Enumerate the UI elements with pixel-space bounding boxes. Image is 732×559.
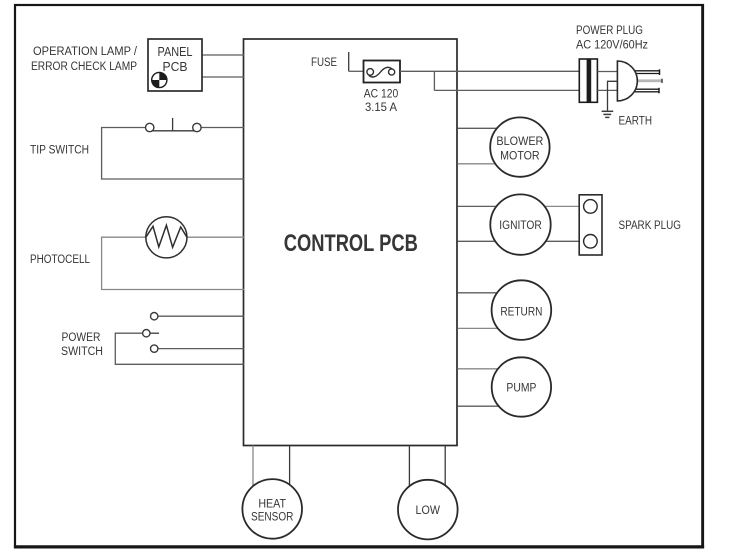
svg-text:FUSE: FUSE: [311, 55, 337, 69]
wire: ignitor lower left: [458, 240, 506, 242]
wire: ignitor to spark plug (lower): [535, 240, 579, 242]
earth ground symbol: [602, 111, 614, 117]
wire: low sensor left lead: [408, 446, 410, 491]
wire: photocell right to control PCB: [184, 236, 244, 238]
svg-text:LOW: LOW: [416, 503, 441, 517]
pump: [492, 357, 551, 416]
blower motor: [490, 117, 549, 176]
label: POWER PLUG AC 120V/60Hz: [576, 23, 648, 52]
wire: heat sensor left lead: [252, 446, 254, 491]
wire: fuse stub from control PCB: [348, 52, 350, 71]
plug prong (middle): [637, 79, 662, 83]
wire: stub to fuse: [349, 70, 364, 72]
return motor: [492, 280, 552, 340]
svg-text:PCB: PCB: [163, 60, 188, 74]
registration mark icon on panel PCB: [152, 72, 167, 87]
svg-text:3.15 A: 3.15 A: [365, 100, 398, 114]
svg-text:PUMP: PUMP: [506, 381, 536, 395]
wire: power switch top contact to control PCB: [158, 315, 244, 317]
svg-text:AC 120V/60Hz: AC 120V/60Hz: [576, 38, 648, 52]
wire: power switch middle branch: [115, 333, 244, 364]
wire: earth tap from plug: [608, 81, 618, 110]
svg-text:CONTROL PCB: CONTROL PCB: [284, 230, 418, 257]
plug prong (bottom): [635, 88, 659, 94]
label: SPARK PLUG: [619, 218, 682, 232]
wire: branch down from line: [433, 71, 435, 90]
svg-text:OPERATION LAMP /: OPERATION LAMP /: [33, 44, 138, 58]
wire: ignitor to spark plug (upper): [535, 205, 579, 207]
plug prong (top): [635, 69, 660, 75]
svg-text:TIP SWITCH: TIP SWITCH: [30, 143, 89, 157]
wire: panel PCB to control PCB (lower): [202, 76, 244, 78]
svg-text:SPARK PLUG: SPARK PLUG: [619, 218, 682, 232]
wire: tip switch right to control PCB: [197, 127, 244, 129]
svg-text:BLOWER: BLOWER: [496, 134, 543, 148]
label: EARTH: [619, 114, 653, 128]
wire: panel PCB to control PCB (upper): [202, 54, 244, 56]
wire: heat sensor right lead: [289, 446, 291, 491]
wire: blower motor lower: [458, 163, 506, 165]
label: FUSE: [311, 55, 337, 69]
wire: pump lower: [458, 405, 506, 407]
panel PCB block: [148, 39, 202, 91]
power plug connector body: [579, 59, 597, 102]
label: PHOTOCELL: [30, 252, 90, 266]
svg-text:SWITCH: SWITCH: [61, 344, 103, 358]
wire: pump upper: [458, 368, 506, 370]
wire: ignitor upper left: [458, 205, 506, 207]
svg-text:IGNITOR: IGNITOR: [499, 218, 542, 232]
label: fuse rating AC 120 / 3.15 A: [364, 87, 399, 115]
svg-text:MOTOR: MOTOR: [500, 148, 540, 162]
wire: tip switch left branch: [102, 128, 244, 180]
tip switch: [146, 118, 202, 132]
svg-text:ERROR CHECK LAMP: ERROR CHECK LAMP: [31, 59, 137, 73]
spark plug terminal block: [579, 195, 602, 255]
wire: fuse to power plug (line): [400, 70, 579, 72]
wire: power switch bottom contact to control PCB: [158, 348, 244, 350]
wire: return lower: [458, 327, 506, 329]
svg-text:SENSOR: SENSOR: [251, 510, 294, 524]
ignitor: [490, 194, 550, 254]
svg-text:POWER: POWER: [62, 330, 101, 344]
wire: neutral to power plug: [434, 89, 579, 91]
heat sensor: [242, 479, 302, 539]
photocell: [146, 217, 187, 258]
label: TIP SWITCH: [30, 143, 89, 157]
wire: blower motor upper: [458, 127, 506, 129]
svg-text:PHOTOCELL: PHOTOCELL: [30, 252, 90, 266]
fuse F1: [364, 61, 401, 83]
power switch: [143, 313, 159, 353]
svg-text:RETURN: RETURN: [500, 305, 542, 319]
plug body: [617, 61, 637, 101]
label: OPERATION LAMP / ERROR CHECK LAMP: [31, 44, 138, 73]
low sensor: [398, 480, 458, 540]
wire: connector to plug (lower): [597, 89, 617, 91]
svg-text:AC 120: AC 120: [364, 87, 399, 101]
svg-text:HEAT: HEAT: [258, 496, 286, 510]
wire: photocell left branch: [102, 237, 244, 289]
svg-text:POWER PLUG: POWER PLUG: [576, 23, 643, 37]
wire: low sensor right lead: [444, 446, 446, 491]
wire: return upper: [458, 292, 506, 294]
svg-text:PANEL: PANEL: [158, 45, 193, 59]
wire: connector to plug (upper): [597, 71, 617, 73]
label: POWER SWITCH: [61, 330, 103, 358]
control PCB block: [244, 39, 458, 446]
svg-text:EARTH: EARTH: [619, 114, 653, 128]
